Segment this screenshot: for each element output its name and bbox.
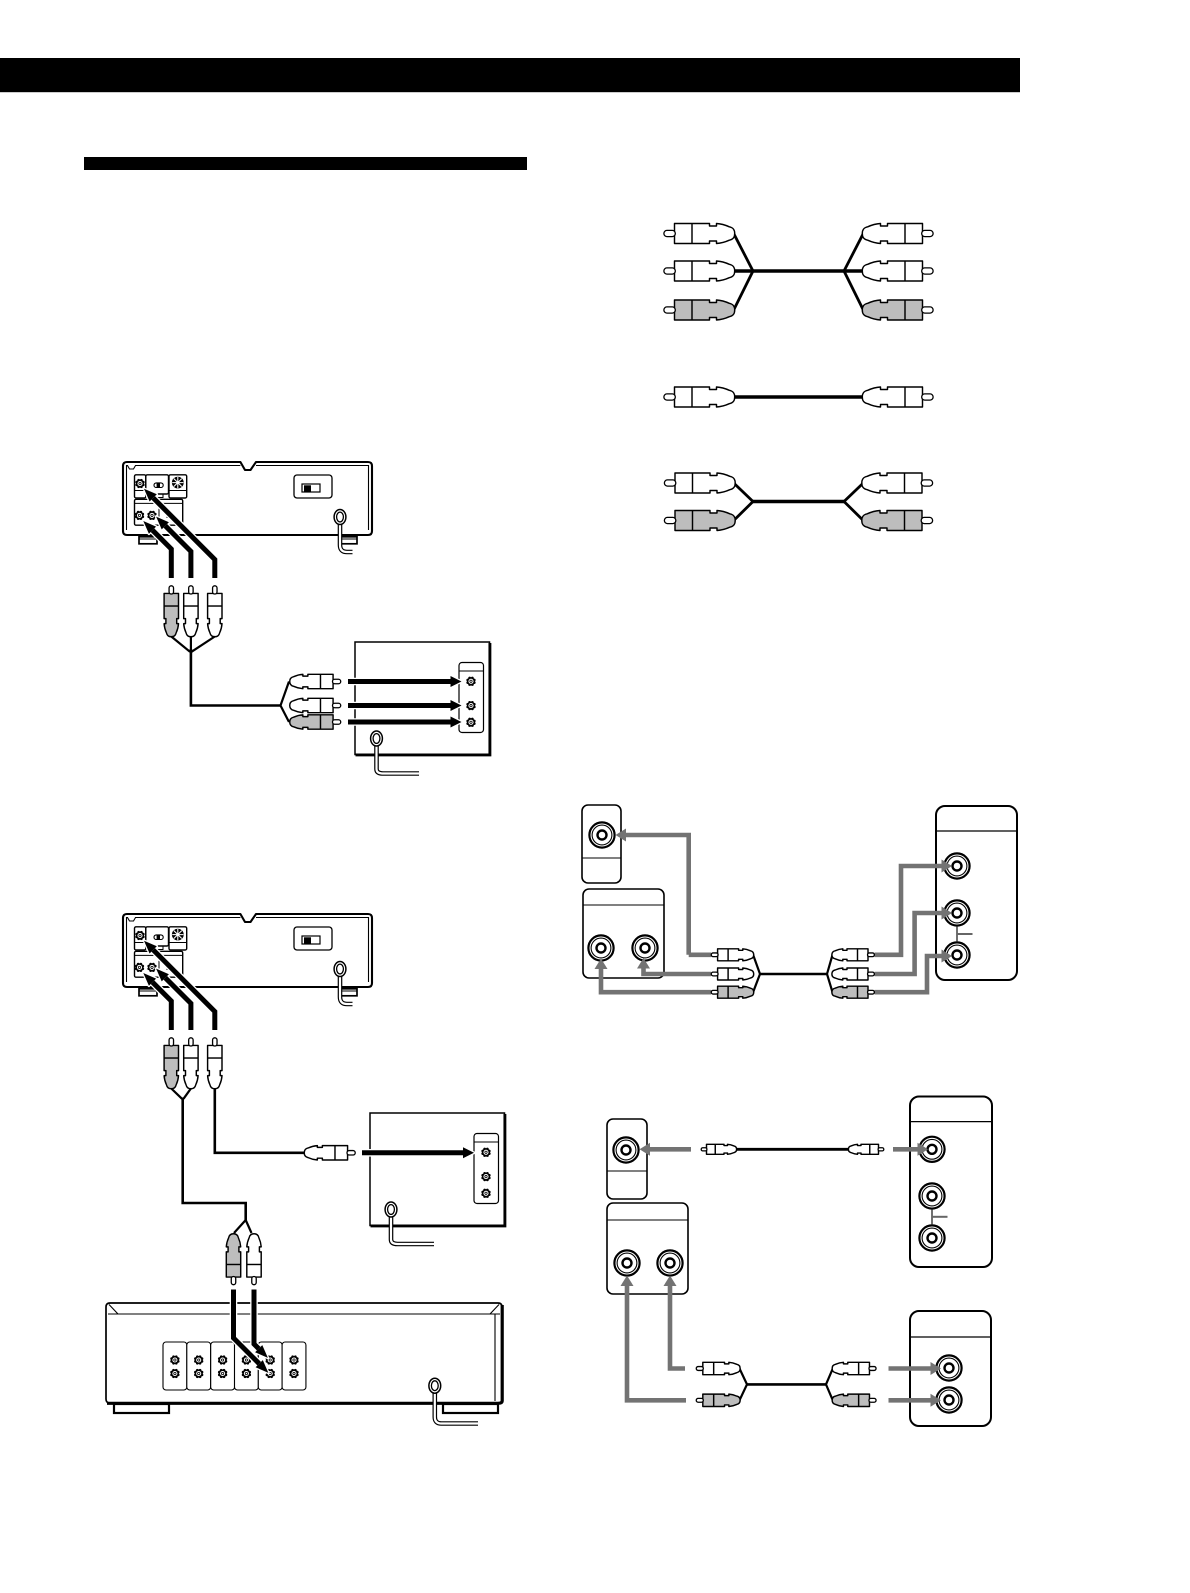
Diagram 2: VCR to TV (video only) + amplifier (audio) [123, 914, 372, 1089]
arrow to TV audio L jack [348, 700, 462, 711]
arrow to TV 2 video jack [362, 1147, 474, 1158]
small RCA plug gray [696, 1394, 740, 1406]
TV 2 power cord [391, 1216, 434, 1244]
gray wire to top-left box jack [640, 1143, 692, 1156]
bundle fan wires [281, 682, 290, 723]
gray wire to top-left jack [616, 829, 689, 955]
cable fan wires [734, 483, 864, 521]
single video cable [664, 387, 933, 407]
plug lead wires [171, 637, 215, 653]
RCA plug white to TV 2 (video) [304, 1146, 355, 1160]
TV set 2 rear panel [370, 1113, 505, 1226]
gray wire to receiver jack 1 [893, 1143, 928, 1156]
RCA plug white pointing down (audio R) [247, 1234, 261, 1285]
small RCA plug white [696, 1362, 740, 1374]
amplifier input module 3 [211, 1342, 235, 1390]
RCA plug white (L audio, left end) [664, 224, 735, 244]
gray wire to bottom receiver jack 1 [889, 1362, 942, 1375]
amplifier power cord [435, 1392, 478, 1424]
gray wire to bottom receiver jack 2 [889, 1394, 942, 1407]
amplifier input module 5 [258, 1342, 282, 1390]
speaker box (bottom left, two jacks) [583, 889, 664, 978]
amplifier input module 6 [282, 1342, 306, 1390]
RCA plug gray pointing down (audio L) [226, 1234, 240, 1285]
split to plugs [234, 1220, 252, 1233]
speaker box (top left, single jack) [607, 1119, 647, 1199]
amplifier foot left [114, 1404, 169, 1413]
cable cord [737, 1148, 849, 1151]
gray wire segment [689, 952, 711, 957]
small RCA plug white [701, 1144, 736, 1154]
RCA plug gray (left end) [664, 511, 735, 531]
RCA plug white (R audio, left end) [664, 261, 735, 281]
Amplifier rear panel [106, 1303, 502, 1413]
RCA plug white to TV (video) [290, 674, 341, 688]
amplifier input module 2 [187, 1342, 211, 1390]
A/V cable (3 phono plugs each end) [664, 224, 933, 321]
receiver box (right, three jacks) [910, 1097, 992, 1268]
gray wire to bottom-left left jack [595, 959, 712, 993]
cable fan wires [740, 1369, 833, 1401]
RCA plug gray to TV (audio R) [290, 715, 341, 729]
gray wire to receiver jack 3 [875, 950, 952, 993]
small RCA plug white [848, 1144, 883, 1154]
TV 1 power cord grommet [371, 731, 383, 746]
cable fan wires [734, 234, 864, 311]
receiver box (bottom right, two jacks) [910, 1311, 991, 1426]
RCA plug gray (video, left end) [664, 300, 735, 320]
stereo audio cable [696, 1362, 876, 1406]
gray wire to bottom-left right jack [637, 958, 711, 974]
gray wire to receiver jack 1 [875, 860, 952, 955]
video wire to TV [215, 1089, 304, 1153]
small RCA plug gray [711, 986, 753, 998]
small RCA plug white [711, 968, 753, 980]
cable fan wires [753, 955, 832, 992]
arrow to TV audio R jack [348, 717, 462, 728]
amplifier case [106, 1303, 502, 1403]
arrow to amplifier L jack [234, 1290, 269, 1373]
gray wire to receiver jack 2 [875, 907, 952, 975]
cable center cord [746, 1383, 827, 1386]
page header black banner [0, 58, 1020, 92]
section title bar [84, 157, 527, 170]
RCA plug white to TV (audio L) [290, 698, 341, 712]
mono audio cable [701, 1144, 884, 1154]
receiver box (right, three jacks) [936, 806, 1017, 980]
speaker box (left, two jacks) [607, 1203, 688, 1294]
audio trunk wire [183, 1098, 246, 1222]
arrow to TV video jack [348, 676, 462, 687]
TV 2 power cord grommet [385, 1202, 397, 1217]
speaker box (top left, single jack) [582, 805, 621, 883]
small RCA plug gray [832, 986, 874, 998]
RCA plug white (left end) [664, 473, 735, 493]
RCA plug white (right end) [862, 387, 933, 407]
amplifier 3D lip [108, 1305, 500, 1402]
RCA plug gray (right end) [862, 511, 933, 531]
amplifier input module 4 [235, 1342, 259, 1390]
gray wire to right jack [664, 1276, 686, 1369]
arrow to amplifier R jack [254, 1290, 268, 1358]
RCA plug white (right end) [862, 473, 933, 493]
cable trunk wire [191, 649, 281, 706]
amplifier foot right [443, 1404, 498, 1413]
small RCA plug white [832, 968, 874, 980]
RCA plug white (L audio, right end) [862, 224, 933, 244]
small RCA plug white [832, 949, 874, 961]
small RCA plug gray [832, 1394, 876, 1406]
RCA plug white (R audio, right end) [862, 261, 933, 281]
cable center cord [759, 973, 828, 976]
cable center cord [753, 500, 844, 504]
Diagram 1: VCR to TV (3-plug) [123, 462, 372, 637]
amplifier input module 1 [163, 1342, 187, 1390]
TV set 1 rear panel [355, 642, 490, 755]
audio cable (3 small plugs each end) [711, 949, 874, 998]
RCA plug gray (video, right end) [862, 300, 933, 320]
plug lead wires [171, 1089, 191, 1099]
audio cable (2 phono plugs each end) [664, 473, 932, 531]
amplifier power cord grommet [429, 1378, 441, 1393]
cable center cord [734, 269, 864, 273]
small RCA plug white [832, 1362, 876, 1374]
RCA plug white (left end) [664, 387, 735, 407]
gray wire to left jack [621, 1276, 687, 1401]
cable cord [734, 395, 864, 399]
small RCA plug white [711, 949, 753, 961]
TV 1 power cord [377, 745, 420, 774]
